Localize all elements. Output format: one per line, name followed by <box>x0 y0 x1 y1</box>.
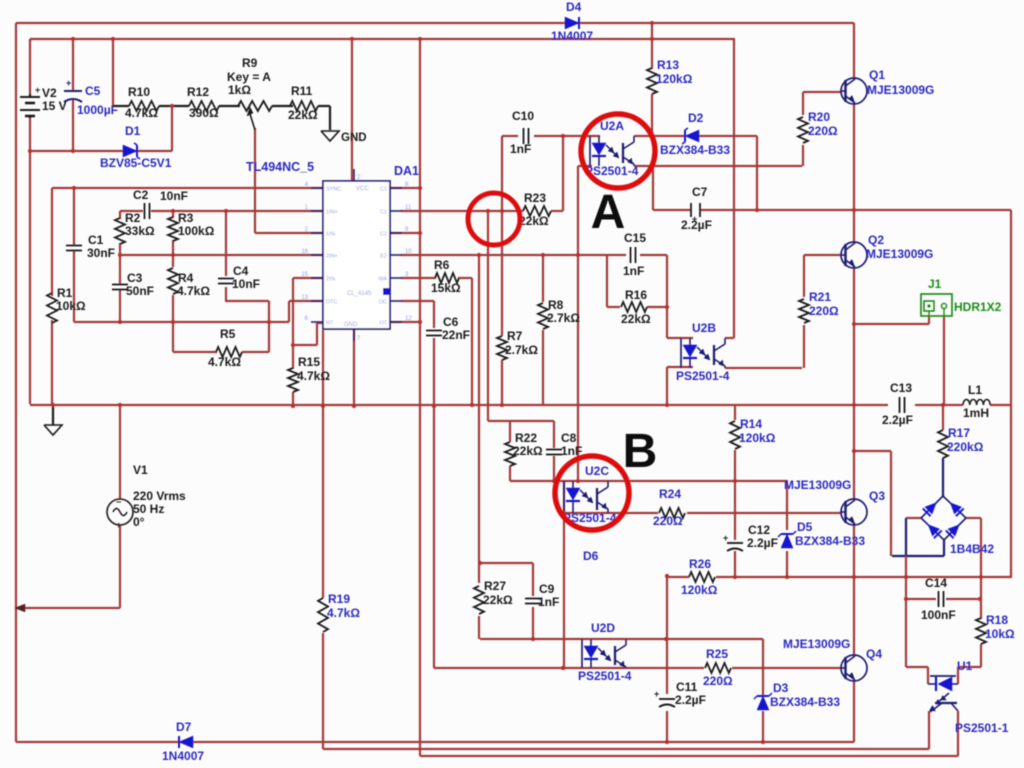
label D4 <box>551 0 593 43</box>
svg-text:C11: C11 <box>676 680 698 694</box>
wire C9 column <box>532 563 534 639</box>
optocoupler U2D <box>582 639 626 668</box>
transistor Q3 <box>841 499 867 525</box>
svg-text:22kΩ: 22kΩ <box>621 312 651 326</box>
svg-text:C1: C1 <box>88 233 104 247</box>
wire R6 right column <box>471 278 473 405</box>
svg-text:DA1: DA1 <box>394 164 419 178</box>
wire Q1 emitter column <box>853 104 855 210</box>
svg-text:2IN+: 2IN+ <box>326 254 338 260</box>
capacitor C11 <box>654 689 675 707</box>
svg-text:16: 16 <box>301 249 308 255</box>
svg-text:R9: R9 <box>242 56 258 70</box>
optocoupler U1 <box>928 676 958 712</box>
wire V1 column <box>119 405 121 608</box>
wire C8 column <box>553 421 555 481</box>
wire column 891 to bridge <box>890 451 892 556</box>
svg-text:V1: V1 <box>133 463 148 477</box>
svg-text:BZV85-C5V1: BZV85-C5V1 <box>100 156 172 170</box>
svg-text:C9: C9 <box>539 582 555 596</box>
svg-text:OT: OT <box>379 321 387 327</box>
svg-text:R7: R7 <box>507 329 523 343</box>
svg-text:R10: R10 <box>128 85 150 99</box>
capacitor C5 <box>64 78 82 102</box>
svg-text:OC: OC <box>379 300 387 306</box>
wire bridge bottom row <box>892 540 944 556</box>
resistor R5 <box>216 347 242 357</box>
wire Q2 emitter column <box>853 267 855 405</box>
svg-text:15: 15 <box>301 272 308 278</box>
label R26 <box>681 557 718 597</box>
label C15 <box>623 231 646 278</box>
wire U2D collector row <box>480 638 763 640</box>
svg-text:BZX384-B33: BZX384-B33 <box>795 534 865 548</box>
ac source V1 <box>107 497 133 530</box>
resistor R3 <box>168 217 178 241</box>
wire column 906 lower <box>905 556 907 667</box>
svg-text:4.7kΩ: 4.7kΩ <box>297 369 330 383</box>
label C8 <box>561 431 582 458</box>
wire column 981 <box>980 518 982 619</box>
wire C5 column <box>72 39 74 151</box>
wire R17 column <box>942 405 944 496</box>
resistor R11 <box>290 101 330 111</box>
svg-text:33kΩ: 33kΩ <box>125 224 155 238</box>
wire C6 column <box>433 301 435 405</box>
svg-text:R14: R14 <box>740 417 762 431</box>
svg-text:C7: C7 <box>692 185 708 199</box>
svg-text:4.7kΩ: 4.7kΩ <box>208 355 241 369</box>
svg-text:Q2: Q2 <box>868 233 884 247</box>
svg-text:2.7kΩ: 2.7kΩ <box>547 311 580 325</box>
wire R20 column <box>802 92 804 166</box>
svg-text:1mH: 1mH <box>963 406 989 420</box>
svg-text:R16: R16 <box>625 288 647 302</box>
label R8 <box>547 298 580 325</box>
label R18 <box>985 613 1015 641</box>
battery V2 <box>20 85 40 118</box>
label R24 <box>653 487 683 528</box>
capacitor C8 <box>546 450 562 455</box>
wire R10 left column <box>112 39 114 106</box>
label R11 <box>288 84 318 122</box>
label U1 <box>955 659 1009 735</box>
op-amp U DA1 TL494 IC box <box>301 169 412 342</box>
wire R6 row <box>401 277 472 279</box>
connector J1 <box>921 294 952 316</box>
svg-text:22kΩ: 22kΩ <box>288 108 318 122</box>
svg-text:C6: C6 <box>443 315 459 329</box>
svg-text:R12: R12 <box>187 85 209 99</box>
svg-text:R22: R22 <box>515 431 537 445</box>
svg-text:120kΩ: 120kΩ <box>656 72 693 86</box>
resistor R4 <box>168 268 178 294</box>
wire V1 bottom row <box>16 607 120 609</box>
svg-text:C10: C10 <box>512 109 534 123</box>
svg-text:+: + <box>654 689 659 699</box>
wire Q2 collector stub <box>853 210 855 243</box>
wire output node row 577 <box>667 576 1011 578</box>
wire TL494 bottom pin column <box>353 329 355 406</box>
wire U2B cathode column to bus <box>666 367 668 405</box>
label C6 <box>442 315 470 342</box>
svg-text:C1: C1 <box>380 187 387 193</box>
svg-text:SYNC: SYNC <box>326 187 341 193</box>
wire C10 R7 column <box>501 136 503 405</box>
transistor Q2 <box>841 242 867 268</box>
wire GND2 stub <box>29 39 31 42</box>
wire Q4 collector column <box>853 577 855 655</box>
svg-text:12: 12 <box>405 316 412 322</box>
svg-text:1N4007: 1N4007 <box>551 29 593 43</box>
svg-text:R27: R27 <box>484 579 506 593</box>
label D7 <box>162 720 204 763</box>
svg-text:U2A: U2A <box>600 119 624 133</box>
wire U2D emitter row R25 <box>434 667 841 669</box>
svg-text:PS2501-4: PS2501-4 <box>578 669 632 683</box>
svg-text:22kΩ: 22kΩ <box>513 444 543 458</box>
transistor Q4 <box>841 655 867 681</box>
wire R13 column <box>651 23 653 136</box>
annotation letter B <box>623 425 658 478</box>
svg-text:R21: R21 <box>809 290 831 304</box>
label R5 <box>208 327 241 369</box>
svg-text:Q3: Q3 <box>869 489 885 503</box>
svg-text:10kΩ: 10kΩ <box>56 299 86 313</box>
resistor R2 <box>115 218 125 244</box>
svg-text:J1: J1 <box>928 277 942 291</box>
svg-text:C1: C1 <box>380 210 387 216</box>
label R13 <box>656 58 693 86</box>
svg-text:PS2501-4: PS2501-4 <box>676 369 730 383</box>
wire R22 column <box>509 421 511 481</box>
wire right border column <box>1010 210 1012 578</box>
svg-text:22kΩ: 22kΩ <box>519 214 549 228</box>
svg-text:2IN-: 2IN- <box>326 277 337 283</box>
capacitor C14 <box>939 591 944 607</box>
svg-text:D3: D3 <box>773 681 789 695</box>
svg-text:4.7kΩ: 4.7kΩ <box>327 606 360 620</box>
wire R2 C3 column <box>119 211 121 322</box>
resistor R16 <box>621 302 647 312</box>
resistor R20 <box>798 117 808 143</box>
wire D2 column 757 <box>756 136 758 210</box>
wire R18 bottom row <box>958 644 981 667</box>
svg-text:2.7kΩ: 2.7kΩ <box>505 343 538 357</box>
label C11 <box>675 680 706 707</box>
svg-text:R11: R11 <box>291 84 313 98</box>
label U2D <box>578 621 632 683</box>
label J1 <box>928 277 1002 314</box>
label R23 <box>519 191 549 228</box>
wire U1 collector leg <box>957 711 959 756</box>
svg-text:1000µF: 1000µF <box>77 103 118 117</box>
svg-text:Key = A: Key = A <box>227 70 271 84</box>
label R21 <box>809 290 839 318</box>
svg-text:U2C: U2C <box>585 464 609 478</box>
capacitor C4 <box>218 279 234 284</box>
wire Q2 base row <box>804 254 841 256</box>
svg-text:D6: D6 <box>583 549 599 563</box>
capacitor C13 <box>900 397 905 413</box>
resistor R13 <box>647 68 657 94</box>
optocoupler U2C <box>564 481 608 513</box>
capacitor C15 <box>631 247 636 263</box>
svg-text:2.2µF: 2.2µF <box>675 693 706 707</box>
capacitor C6 <box>426 331 442 336</box>
svg-text:+: + <box>723 533 728 543</box>
label V2 <box>42 86 67 113</box>
wire R5 right column <box>268 301 270 352</box>
wire U2A cathode to column 578 <box>578 165 592 167</box>
wire R1 column <box>51 188 53 404</box>
label R6 <box>431 258 461 295</box>
svg-text:R25: R25 <box>706 647 728 661</box>
label D1 <box>100 124 172 170</box>
svg-text:HDR1X2: HDR1X2 <box>954 300 1002 314</box>
wire bridge right L <box>966 517 981 519</box>
label R22 <box>513 431 543 458</box>
svg-text:R20: R20 <box>808 110 830 124</box>
wire pin row 233 right <box>390 232 420 234</box>
label C2 <box>133 188 188 203</box>
wire R10 D1 junction column <box>171 106 173 151</box>
label C13 <box>882 381 913 427</box>
wire R16 row <box>607 306 667 308</box>
svg-text:E2: E2 <box>380 254 387 260</box>
wire R23 row <box>401 210 563 212</box>
svg-text:CL_4145: CL_4145 <box>347 291 372 297</box>
svg-text:C2: C2 <box>133 188 149 202</box>
label R3 <box>178 211 215 238</box>
capacitor C12 <box>723 533 743 551</box>
svg-text:MJE13009G: MJE13009G <box>867 83 934 97</box>
svg-text:+: + <box>66 78 71 88</box>
svg-text:C3: C3 <box>127 271 143 285</box>
wire V2 column <box>29 39 31 404</box>
svg-text:−: − <box>116 497 121 507</box>
svg-text:VCC: VCC <box>356 186 369 192</box>
label C4 <box>232 264 260 291</box>
net arrow <box>15 604 25 612</box>
resistor R22 <box>505 442 515 466</box>
resistor R6 <box>435 273 459 283</box>
svg-text:U2D: U2D <box>591 621 615 635</box>
svg-text:100kΩ: 100kΩ <box>178 224 215 238</box>
wire U2C top row <box>510 480 787 482</box>
wire R26 C11 column <box>666 577 668 742</box>
svg-text:220kΩ: 220kΩ <box>947 440 984 454</box>
svg-text:R26: R26 <box>689 557 711 571</box>
label R19 <box>327 592 360 620</box>
label R1 <box>56 286 86 313</box>
inductor L1 <box>963 400 990 405</box>
svg-text:C13: C13 <box>890 381 912 395</box>
svg-text:U2B: U2B <box>692 321 716 335</box>
capacitor C2 <box>145 203 150 219</box>
optocoupler U2A <box>590 136 634 166</box>
svg-text:4.7kΩ: 4.7kΩ <box>125 106 158 120</box>
wire R3 R4 column <box>172 211 174 352</box>
svg-text:50nF: 50nF <box>126 284 154 298</box>
wire R15 column <box>292 345 294 406</box>
svg-text:R5: R5 <box>220 327 236 341</box>
resistor R7 <box>497 336 507 360</box>
label D5 <box>795 520 865 548</box>
zener D3 <box>754 693 772 710</box>
wire Q3 emitter column <box>853 524 855 577</box>
svg-text:13: 13 <box>301 295 308 301</box>
capacitor C3 <box>112 285 128 290</box>
wire R22 C8 top row <box>488 420 554 422</box>
label R14 <box>739 417 776 445</box>
wire U1 anode column <box>957 667 959 684</box>
annotation circle node <box>468 193 520 245</box>
svg-text:R15: R15 <box>298 355 320 369</box>
svg-text:Q1: Q1 <box>869 68 885 82</box>
svg-text:15kΩ: 15kΩ <box>431 281 461 295</box>
svg-text:10: 10 <box>405 249 412 255</box>
svg-text:390Ω: 390Ω <box>189 106 219 120</box>
capacitor C9 <box>525 599 541 604</box>
wire R14 column <box>734 405 736 481</box>
wire pin row 322 right <box>390 321 420 323</box>
diode D1 <box>123 143 140 159</box>
svg-text:15 V: 15 V <box>42 99 67 113</box>
wire C4 column <box>225 211 227 301</box>
wire U2B cathode row <box>667 366 693 368</box>
label C1 <box>87 233 115 260</box>
wire R27 column <box>478 563 480 639</box>
optocoupler U2B <box>681 338 725 368</box>
label R20 <box>808 110 838 138</box>
wire C2 R3 row <box>120 210 323 212</box>
resistor R27 <box>474 586 484 614</box>
resistor R12 <box>172 101 240 111</box>
label U2C <box>563 464 617 525</box>
svg-text:R18: R18 <box>986 613 1008 627</box>
svg-text:1nF: 1nF <box>538 595 559 609</box>
svg-text:D5: D5 <box>797 520 813 534</box>
svg-text:U1: U1 <box>957 659 973 673</box>
wire spine to Q3 <box>853 405 855 499</box>
wire TL494 top pin column <box>351 39 353 181</box>
resistor R14 <box>730 421 740 449</box>
svg-text:Q4: Q4 <box>866 647 882 661</box>
wire row 301 left <box>225 300 269 302</box>
resistor R17 <box>938 430 948 458</box>
label U2A <box>585 119 639 178</box>
svg-text:100nF: 100nF <box>921 608 956 622</box>
wire column 578 <box>577 166 579 481</box>
svg-text:R2: R2 <box>125 211 141 225</box>
resistor R26 <box>689 572 715 582</box>
svg-text:10kΩ: 10kΩ <box>985 627 1015 641</box>
wire U2A emitter row to R20 <box>634 165 802 167</box>
svg-text:TL494NC_5: TL494NC_5 <box>246 160 314 174</box>
label R10 <box>125 85 158 120</box>
annotation circle U2A <box>581 114 655 188</box>
svg-text:GND: GND <box>341 132 367 144</box>
svg-text:D4: D4 <box>566 0 582 14</box>
wire C6 stub row <box>401 300 434 302</box>
capacitor C1 <box>66 246 82 251</box>
wire Q1 collector stub <box>853 23 855 79</box>
resistor R21 <box>799 299 809 323</box>
svg-text:D7: D7 <box>176 720 192 734</box>
resistor R23 <box>523 206 551 216</box>
svg-text:C14: C14 <box>925 576 947 590</box>
resistor R24 <box>659 508 685 518</box>
wire wiper row 233 <box>255 232 323 234</box>
label R15 <box>297 355 330 383</box>
label Q1 <box>867 68 934 97</box>
svg-text:R1: R1 <box>57 286 73 300</box>
label C10 <box>510 109 534 156</box>
svg-text:10nF: 10nF <box>160 189 188 203</box>
svg-text:R24: R24 <box>659 487 681 501</box>
wire D3 column <box>762 639 764 742</box>
svg-text:22nF: 22nF <box>442 328 470 342</box>
label R12 <box>187 85 219 120</box>
label TL494NC_5 <box>246 160 314 174</box>
wire J1 pin2 column <box>943 316 945 405</box>
label 1B4B42 <box>950 542 994 556</box>
svg-text:50 Hz: 50 Hz <box>133 502 164 516</box>
svg-text:220Ω: 220Ω <box>809 304 839 318</box>
svg-text:120kΩ: 120kΩ <box>739 431 776 445</box>
resistor R25 <box>705 663 731 673</box>
svg-text:L1: L1 <box>968 383 982 397</box>
wire C15 R16 right column <box>666 255 668 338</box>
wire 15V distribution row <box>30 38 735 40</box>
svg-text:BZX384-B33: BZX384-B33 <box>770 695 840 709</box>
svg-text:C8: C8 <box>561 431 577 445</box>
svg-text:R13: R13 <box>657 58 679 72</box>
diode D7 <box>179 736 193 748</box>
wire column 434 lower <box>433 405 435 668</box>
svg-text:PS2501-1: PS2501-1 <box>955 721 1009 735</box>
wire C15 left column <box>606 255 608 307</box>
wire U1 emitter leg <box>928 711 930 749</box>
svg-text:0°: 0° <box>133 515 145 529</box>
wire U2B anode row <box>667 337 693 339</box>
svg-text:+: + <box>116 520 121 530</box>
wire U2C bottom row R24 to Q3 <box>564 512 841 514</box>
svg-text:+: + <box>35 85 40 95</box>
annotation circle U2C <box>555 456 629 530</box>
svg-text:MJE13009G: MJE13009G <box>783 637 850 651</box>
label C14 <box>921 576 956 622</box>
resistor R19 <box>318 598 328 632</box>
label R25 <box>703 647 733 688</box>
wire column 488 <box>487 211 489 421</box>
wire C10 row <box>502 135 600 137</box>
resistor R18 <box>976 618 986 644</box>
resistor R15 <box>288 368 298 392</box>
svg-text:BZX384-B33: BZX384-B33 <box>660 143 730 157</box>
svg-text:R6: R6 <box>434 258 450 272</box>
wire ground bus row <box>30 404 1011 406</box>
label C9 <box>538 582 559 609</box>
svg-text:11: 11 <box>405 205 412 211</box>
wire Q3 collector jog row <box>854 450 891 452</box>
svg-text:C5: C5 <box>85 84 101 98</box>
wire U2A anode column link <box>562 136 564 211</box>
svg-text:2.2µF: 2.2µF <box>747 536 778 550</box>
label R16 <box>621 288 651 326</box>
wire U2B emitter row <box>725 367 802 369</box>
